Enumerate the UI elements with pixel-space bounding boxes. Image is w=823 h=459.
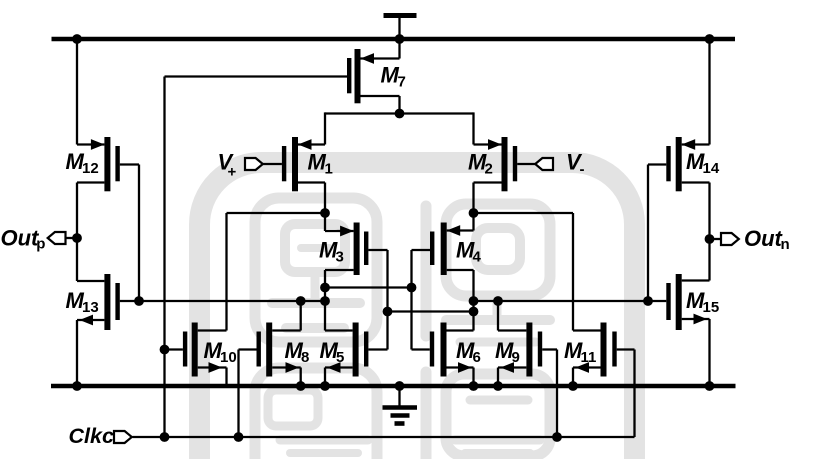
wire M11 drain column	[572, 213, 574, 331]
junction node A upper	[320, 283, 330, 293]
wire source bus left drop to M1	[324, 112, 326, 144]
wire M8 drain up to output line	[300, 301, 302, 331]
wire M8 gate down to clock line	[237, 350, 239, 438]
transistor M14	[648, 137, 710, 191]
transistor M5	[325, 323, 388, 377]
wire M15 source to ground rail	[708, 319, 710, 386]
transistor M6	[412, 323, 474, 377]
wire M9 drain up to output line	[497, 301, 499, 331]
wire M10 drain column	[225, 213, 227, 331]
transistor M7	[347, 49, 400, 103]
label M3	[319, 238, 344, 266]
wire M6 source to rail	[472, 368, 474, 387]
label M13	[66, 288, 99, 316]
junction M9 drain on output line	[493, 296, 503, 306]
label M12	[66, 149, 99, 177]
wire M8 source to rail	[300, 368, 302, 387]
junction M7 drain / source bus	[395, 109, 405, 119]
transistor M3	[325, 223, 388, 276]
transistor M1	[262, 137, 325, 191]
junction Outp node	[72, 233, 82, 243]
svg-text:p: p	[36, 236, 45, 253]
wire M3 drain down node A	[324, 270, 326, 331]
svg-text:-: -	[580, 161, 585, 178]
wire M1 node to M3 source	[324, 213, 326, 231]
svg-text:4: 4	[473, 249, 482, 266]
svg-text:+: +	[228, 164, 237, 181]
wire M11 source to rail	[572, 368, 574, 387]
label M8	[285, 338, 310, 366]
junction M13 source on rail	[72, 381, 82, 391]
junction on top rail at M14 source	[705, 34, 715, 44]
wire M9 source to rail	[497, 368, 499, 387]
svg-text:13: 13	[82, 299, 99, 316]
wire M13 source to ground rail	[76, 320, 78, 386]
wire source bus right drop to M2	[472, 112, 474, 144]
junction M15 source on rail	[705, 381, 715, 391]
label V-	[566, 150, 585, 179]
wire VDD top rail	[52, 37, 736, 42]
wire source bus horizontal	[325, 112, 474, 114]
transistor M11	[573, 323, 635, 377]
junction M1 drain node	[320, 208, 330, 218]
svg-text:6: 6	[473, 349, 481, 366]
transistor M13	[77, 274, 139, 330]
junction M11 source on rail	[568, 381, 578, 391]
port Clkc	[114, 431, 132, 443]
wire M9 gate down to clock line	[556, 350, 558, 438]
svg-text:Clkc: Clkc	[69, 424, 114, 448]
wire output line left (node A to M12/M13 gates)	[139, 300, 325, 302]
label Outp	[1, 226, 46, 253]
junction M6 source on rail	[469, 381, 479, 391]
port V-	[535, 158, 553, 170]
wire M7 source to top rail	[398, 39, 400, 59]
junction M3 gate tap	[383, 307, 393, 317]
junction M12/M13 gate node	[134, 296, 144, 306]
watermark seal (decorative background)	[200, 163, 635, 459]
label V+	[218, 150, 237, 181]
label M7	[381, 63, 406, 91]
wire ground bottom rail	[51, 384, 736, 389]
wire Outn stub	[710, 238, 722, 240]
junction node B lower	[469, 307, 479, 317]
junction node B on output line	[469, 296, 479, 306]
svg-text:12: 12	[82, 160, 99, 177]
label M6	[456, 338, 481, 366]
wire M2 drain to node	[472, 183, 474, 214]
svg-text:2: 2	[485, 161, 493, 178]
junction M2 drain node	[469, 208, 479, 218]
svg-text:9: 9	[512, 349, 520, 366]
junction M9 source on rail	[493, 381, 503, 391]
junction Outn node	[705, 234, 715, 244]
wire M2 drain to M11 branch	[474, 212, 574, 214]
junction ground tap on rail	[395, 381, 405, 391]
wire clock line	[133, 436, 635, 438]
wire clock column vertical	[163, 77, 165, 438]
wire M14 source to rail	[708, 39, 710, 145]
wire M14 drain to Outn	[708, 183, 710, 281]
svg-text:1: 1	[325, 161, 333, 178]
junction clock at M7/M10 column	[160, 432, 170, 442]
junction M8 drain on output line	[296, 296, 306, 306]
label M10	[204, 338, 237, 366]
wire node A to M4 gate	[325, 286, 412, 288]
wire M4 drain down node B	[472, 270, 474, 331]
junction on top rail below VDD symbol	[395, 34, 405, 44]
wire node B to M3 gate	[388, 310, 474, 312]
transistor M8	[239, 323, 301, 377]
label M9	[495, 338, 520, 366]
label M4	[456, 238, 482, 266]
wire M14 gate down	[647, 165, 649, 302]
ground symbol	[383, 386, 418, 424]
wire M1 drain to M10 branch	[227, 212, 326, 214]
label M15	[686, 288, 719, 316]
svg-text:n: n	[781, 236, 790, 253]
svg-text:7: 7	[398, 74, 406, 91]
label M11	[564, 338, 596, 366]
transistor M4	[412, 223, 474, 276]
wire output line right (node B to M14/M15 gates)	[474, 300, 649, 302]
label M1	[308, 150, 333, 178]
svg-text:15: 15	[703, 299, 720, 316]
label M14	[686, 149, 720, 177]
wire M7 gate line to clock column	[165, 75, 348, 77]
junction M4 gate tap	[407, 283, 417, 293]
junction M8 source on rail	[296, 381, 306, 391]
svg-text:3: 3	[336, 249, 344, 266]
transistor M10	[165, 323, 227, 377]
wire M3 gate column	[386, 250, 388, 350]
wire M12 gate down	[138, 165, 140, 302]
svg-text:Out: Out	[744, 226, 784, 251]
wire M5 source to rail	[324, 368, 326, 387]
svg-text:8: 8	[301, 349, 309, 366]
VDD power symbol	[384, 16, 417, 38]
junction M14/M15 gate node	[643, 296, 653, 306]
wire M2 node to M4 source	[472, 213, 474, 231]
label M2	[468, 150, 493, 178]
wire M10 source to rail	[225, 368, 227, 387]
junction M5 source on rail	[320, 381, 330, 391]
svg-text:10: 10	[220, 349, 237, 366]
label Clkc	[69, 424, 114, 448]
wire M7 drain down	[398, 96, 400, 114]
transistor M15	[648, 274, 710, 330]
svg-text:Out: Out	[1, 226, 41, 251]
wire M11 gate down to clock line	[633, 350, 635, 438]
transistor M9	[498, 323, 557, 377]
wire Outp stub	[66, 237, 78, 239]
junction clock at M9 column	[552, 432, 562, 442]
junction node A on output line	[320, 296, 330, 306]
label M5	[320, 338, 345, 366]
wire M4 gate column	[410, 250, 412, 350]
wire M12 drain to Outp	[76, 183, 78, 282]
svg-text:5: 5	[336, 349, 344, 366]
label Outn	[744, 226, 790, 253]
transistor M12	[77, 137, 139, 191]
wire M12 source to rail	[76, 39, 78, 145]
port Outp	[48, 232, 66, 244]
svg-text:14: 14	[703, 160, 720, 177]
wire M1 drain to node	[324, 183, 326, 214]
transistor M2	[474, 137, 536, 191]
junction M10 gate tap on clock column	[160, 345, 170, 355]
port V+	[245, 158, 263, 170]
junction on top rail at M12 source	[72, 34, 82, 44]
junction clock at M8 column	[234, 432, 244, 442]
port Outn	[721, 233, 739, 245]
svg-text:11: 11	[581, 349, 597, 366]
